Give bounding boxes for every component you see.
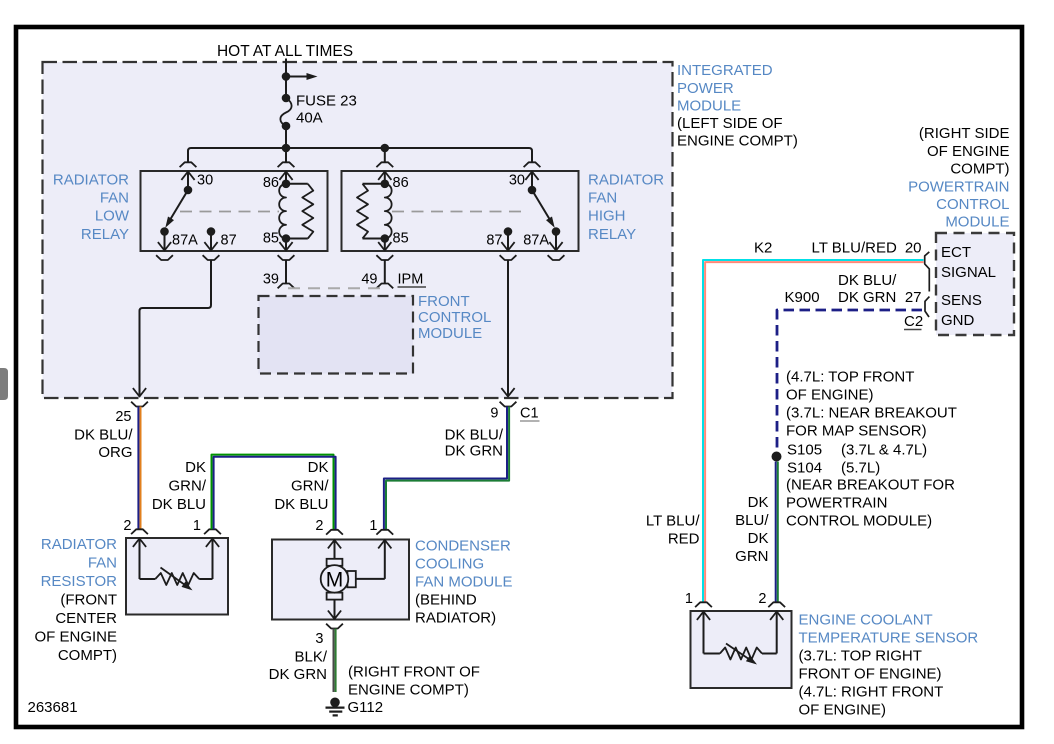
wire feed bus	[188, 148, 532, 162]
label ENGINE COOLANT TEMPERATURE SENSOR	[799, 612, 979, 647]
svg-text:27: 27	[905, 289, 922, 306]
svg-text:OF ENGINE: OF ENGINE	[927, 143, 1010, 160]
svg-text:GRN: GRN	[735, 548, 768, 565]
relay K2 pin85 lead	[378, 239, 391, 251]
connector tent sensor pin2	[768, 602, 785, 607]
svg-text:20: 20	[905, 240, 922, 257]
svg-text:87: 87	[221, 233, 237, 249]
svg-text:TEMPERATURE SENSOR: TEMPERATURE SENSOR	[799, 630, 979, 647]
svg-text:DK: DK	[748, 494, 769, 511]
svg-text:86: 86	[393, 175, 409, 191]
svg-text:DK: DK	[185, 459, 206, 476]
svg-text:FAN: FAN	[588, 190, 617, 207]
motor M1 top brush	[327, 559, 343, 566]
svg-text:BLK/: BLK/	[294, 649, 327, 666]
svg-text:GRN/: GRN/	[291, 478, 329, 495]
motor M1 ground lead	[328, 600, 341, 619]
wire DK BLU/DK GRN to sensor (blu strip)	[775, 462, 777, 603]
svg-text:(FRONT: (FRONT	[60, 592, 117, 609]
svg-text:CONTROL: CONTROL	[936, 196, 1009, 213]
relay K1 node 86	[282, 180, 291, 189]
svg-text:DK BLU: DK BLU	[274, 496, 328, 513]
motor M1 letter	[326, 569, 344, 592]
label pin 9	[490, 406, 498, 422]
motor M1 pin2 lead	[328, 540, 341, 559]
svg-text:(RIGHT SIDE: (RIGHT SIDE	[919, 125, 1010, 142]
svg-text:K2: K2	[754, 240, 772, 257]
svg-text:30: 30	[197, 173, 213, 189]
svg-text:CONDENSER: CONDENSER	[415, 538, 511, 555]
svg-text:S105: S105	[787, 442, 822, 459]
relay K1 pin87 label	[221, 233, 237, 249]
connector tent pin49	[376, 284, 393, 289]
wire tap arrow	[286, 73, 318, 80]
connector cup relay2 pin87	[500, 255, 517, 260]
connector cup condenser pin3	[326, 624, 343, 629]
connector cup relay2 pin85	[376, 255, 393, 260]
relay K2 pin86 label	[393, 175, 409, 191]
node fuse tap	[282, 72, 291, 81]
label IPM underlined	[398, 272, 427, 288]
label RADIATOR FAN RESISTOR (FRONT CENTER OF ENGINE COMPT)	[34, 536, 117, 664]
svg-text:FAN: FAN	[100, 190, 129, 207]
sensor thermistor variable arrow	[726, 644, 757, 665]
relay K2 switch arm	[532, 190, 555, 228]
label sensor pin 1	[685, 591, 693, 607]
svg-text:POWERTRAIN: POWERTRAIN	[786, 495, 887, 512]
svg-text:30: 30	[509, 173, 525, 189]
label 263681	[28, 699, 78, 716]
svg-text:1: 1	[369, 518, 377, 534]
svg-text:ENGINE COMPT): ENGINE COMPT)	[677, 133, 798, 150]
svg-text:87: 87	[486, 233, 502, 249]
label INTEGRATED POWER MODULE	[677, 62, 773, 115]
connector tent pin39	[278, 284, 295, 289]
svg-text:(RIGHT FRONT OF: (RIGHT FRONT OF	[348, 664, 480, 681]
wire DK GRN/DK BLU left (blu strip)	[214, 457, 336, 530]
radiator fan resistor box	[126, 538, 228, 615]
relay K1 node 85	[282, 234, 291, 243]
svg-text:DK: DK	[308, 459, 329, 476]
label (3.7L: TOP RIGHT FRONT OF ENGINE) (4.7L: RIGHT FRONT OF ENGINE)	[799, 648, 944, 719]
svg-text:CONTROL: CONTROL	[418, 309, 491, 326]
svg-text:(BEHIND: (BEHIND	[415, 592, 477, 609]
svg-text:(LEFT SIDE OF: (LEFT SIDE OF	[677, 115, 783, 132]
connector tent condenser pin2	[326, 530, 343, 535]
svg-text:ENGINE COOLANT: ENGINE COOLANT	[799, 612, 933, 629]
label RADIATOR FAN LOW RELAY	[53, 172, 130, 244]
label condenser pin 1	[369, 518, 377, 534]
label (4.7L: TOP FRONT OF ENGINE) (3.7L: NEAR BREAKOUT FOR MAP SENSOR)	[786, 369, 957, 440]
label K2 LT BLU/RED 20	[754, 240, 922, 257]
svg-text:86: 86	[263, 175, 279, 191]
wire bus drop left 86	[285, 148, 287, 162]
label resistor pin 1	[193, 518, 201, 534]
node bus-86L junction	[282, 144, 291, 153]
svg-text:LT BLU/: LT BLU/	[646, 513, 700, 530]
label pin 39	[263, 272, 279, 288]
stub relay2 85 to pin49	[384, 260, 386, 284]
svg-text:C1: C1	[520, 406, 539, 422]
label DK GRN/DK BLU (left)	[152, 459, 207, 513]
label POWERTRAIN CONTROL MODULE	[908, 179, 1009, 231]
label G112	[348, 699, 384, 716]
svg-text:RADIATOR: RADIATOR	[41, 536, 117, 553]
fuse F23 top node	[282, 94, 291, 103]
relay K1 node 87	[207, 227, 216, 236]
svg-text:(NEAR BREAKOUT FOR: (NEAR BREAKOUT FOR	[786, 477, 955, 494]
label pin 25	[115, 409, 131, 425]
svg-text:87A: 87A	[523, 233, 549, 249]
connector tent resistor pin2	[131, 529, 148, 534]
connector cup relay2 pin87A	[548, 255, 565, 260]
svg-text:IPM: IPM	[398, 272, 424, 288]
svg-text:DK GRN: DK GRN	[445, 443, 503, 460]
relay K2 pin86 arrow	[378, 172, 391, 184]
connector cup relay1 pin87	[203, 255, 220, 260]
svg-text:(4.7L: TOP FRONT: (4.7L: TOP FRONT	[786, 369, 914, 386]
svg-text:85: 85	[263, 231, 279, 247]
svg-text:DK GRN: DK GRN	[269, 666, 327, 683]
relay K1 pin30 label	[197, 173, 213, 189]
splice S105/S104	[772, 452, 782, 462]
relay K1 coil	[279, 184, 286, 239]
relay K2 node 87A	[552, 227, 561, 236]
svg-text:COMPT): COMPT)	[950, 161, 1009, 178]
svg-text:POWERTRAIN: POWERTRAIN	[908, 179, 1009, 196]
svg-text:CENTER: CENTER	[55, 610, 117, 627]
label DK BLU/ORG	[74, 427, 133, 462]
svg-text:FRONT OF ENGINE): FRONT OF ENGINE)	[799, 666, 942, 683]
svg-text:87A: 87A	[172, 233, 198, 249]
svg-text:ENGINE COMPT): ENGINE COMPT)	[348, 682, 469, 699]
svg-text:FAN MODULE: FAN MODULE	[415, 574, 513, 591]
motor M1 bottom brush	[327, 593, 343, 600]
relay K1 internal dashed link	[180, 211, 279, 213]
connector cup IPM exit 25	[131, 402, 148, 407]
svg-text:(4.7L: RIGHT FRONT: (4.7L: RIGHT FRONT	[799, 684, 944, 701]
connector tent relay1 pin86	[278, 162, 295, 167]
relay K1 node 87A	[160, 227, 169, 236]
relay K2 internal dashed link	[392, 211, 528, 213]
label K900 DK BLU/DK GRN 27	[785, 272, 922, 306]
label ECT SIGNAL	[941, 244, 996, 281]
label (RIGHT FRONT OF ENGINE COMPT)	[348, 664, 480, 699]
svg-text:263681: 263681	[28, 699, 78, 716]
svg-text:POWER: POWER	[677, 80, 734, 97]
svg-text:GND: GND	[941, 312, 975, 329]
wire DK BLU/DK GRN to sensor (grn strip)	[777, 462, 779, 603]
svg-text:GRN/: GRN/	[169, 478, 207, 495]
svg-text:1: 1	[193, 518, 201, 534]
relay K1 pin85 lead	[279, 239, 292, 251]
svg-text:2: 2	[758, 591, 766, 607]
svg-text:85: 85	[393, 231, 409, 247]
svg-text:DK BLU/: DK BLU/	[838, 272, 897, 289]
connector tent relay2 pin86	[376, 162, 393, 167]
svg-text:LT BLU/RED: LT BLU/RED	[812, 240, 897, 257]
label HOT AT ALL TIMES	[217, 43, 353, 60]
wire K900 dashed (to splice)	[777, 310, 922, 450]
sensor thermistor element	[704, 648, 777, 660]
svg-text:SIGNAL: SIGNAL	[941, 264, 996, 281]
svg-text:1: 1	[685, 591, 693, 607]
label condenser pin 2	[315, 518, 323, 534]
svg-text:RESISTOR: RESISTOR	[41, 573, 118, 590]
svg-text:39: 39	[263, 272, 279, 288]
connector cup IPM exit 9	[500, 402, 517, 407]
relay K1 node pin30	[184, 186, 193, 195]
wire DK GRN/DK BLU left (grn strip)	[212, 455, 334, 530]
svg-text:M: M	[326, 569, 344, 592]
relay K2 pin87 lead	[501, 232, 514, 251]
svg-text:INTEGRATED: INTEGRATED	[677, 62, 773, 79]
resistor R1 element	[140, 573, 213, 585]
label BLK/DK GRN	[269, 649, 328, 684]
svg-text:G112: G112	[348, 699, 384, 716]
relay K2 pin85 label	[393, 231, 409, 247]
wire hot feed vertical	[285, 59, 287, 100]
svg-text:DK BLU: DK BLU	[152, 496, 206, 513]
relay K1 pin86 arrow	[279, 172, 292, 184]
label DK BLU/DK GRN (C1 wire)	[445, 427, 504, 460]
wire gray dashed 39-49 link	[288, 287, 383, 289]
wire DK BLU/ORG (org strip)	[140, 407, 142, 530]
connector tent resistor pin1	[204, 529, 221, 534]
svg-text:HIGH: HIGH	[588, 208, 626, 225]
relay K1 pin85 label	[263, 231, 279, 247]
svg-text:(3.7L: TOP RIGHT: (3.7L: TOP RIGHT	[799, 648, 922, 665]
svg-text:MODULE: MODULE	[418, 325, 482, 342]
svg-text:2: 2	[315, 518, 323, 534]
svg-text:FAN: FAN	[88, 555, 117, 572]
relay K1 radiator fan low relay box	[141, 171, 328, 251]
svg-text:BLU/: BLU/	[735, 512, 769, 529]
fuse F23 element	[280, 98, 291, 126]
svg-text:RELAY: RELAY	[588, 226, 636, 243]
relay K2 node pin30	[528, 186, 537, 195]
label pin 49	[361, 272, 377, 288]
wire relay2 87 to IPM exit C1	[501, 260, 514, 397]
label LT BLU/RED (vertical run)	[646, 513, 700, 548]
label RADIATOR FAN HIGH RELAY	[588, 172, 664, 244]
connector tent relay2 pin30	[524, 162, 541, 167]
svg-text:K900: K900	[785, 289, 820, 306]
connector tent sensor pin1	[695, 602, 712, 607]
svg-text:OF ENGINE: OF ENGINE	[34, 629, 117, 646]
relay K1 pin30 arrow	[181, 172, 194, 191]
svg-text:40A: 40A	[296, 110, 323, 127]
label C1 underlined	[520, 406, 540, 422]
resistor R1 pin2 arrow	[133, 539, 146, 580]
resistor R1 variable arrow	[161, 568, 193, 591]
wire BLK/DK GRN (blk strip)	[333, 629, 335, 693]
svg-text:DK BLU/: DK BLU/	[445, 427, 504, 444]
relay K1 switch arm	[165, 190, 188, 228]
svg-text:COOLING: COOLING	[415, 556, 484, 573]
wire DK BLU/DK GRN from C1 (grn strip)	[386, 407, 509, 530]
relay K2 pin30 arrow	[525, 172, 538, 191]
svg-text:S104: S104	[787, 460, 822, 477]
svg-text:COMPT): COMPT)	[58, 647, 117, 664]
svg-text:(3.7L & 4.7L): (3.7L & 4.7L)	[841, 442, 927, 459]
label (RIGHT SIDE OF ENGINE COMPT)	[919, 125, 1010, 178]
integrated power module box (dashed)	[43, 62, 673, 398]
svg-text:RADIATOR): RADIATOR)	[415, 610, 496, 627]
relay K2 pin87A lead	[549, 232, 562, 251]
sensor thermistor pin2 arrow	[770, 612, 783, 654]
motor M1 body circle	[321, 565, 349, 593]
svg-text:DK: DK	[748, 530, 769, 547]
svg-text:49: 49	[361, 272, 377, 288]
svg-text:RELAY: RELAY	[81, 226, 129, 243]
left edge gray tab	[0, 368, 8, 400]
label (NEAR BREAKOUT FOR POWERTRAIN CONTROL MODULE)	[786, 477, 955, 530]
wire relay1 87 to IPM exit	[133, 260, 211, 397]
svg-text:DK GRN: DK GRN	[838, 289, 896, 306]
svg-text:DK BLU/: DK BLU/	[74, 427, 133, 444]
svg-text:OF ENGINE): OF ENGINE)	[786, 387, 874, 404]
label S105 (3.7L &amp; 4.7L) S104 (5.7L)	[787, 442, 927, 477]
stub relay1 85 to pin39	[285, 260, 287, 284]
svg-text:C2: C2	[904, 313, 923, 330]
relay K2 pin87 label	[486, 233, 502, 249]
connector bracket PCM pin27	[925, 297, 929, 317]
label resistor pin 2	[123, 518, 131, 534]
relay K2 coil resistor	[357, 184, 385, 239]
connector tent condenser pin1	[376, 530, 393, 535]
relay K1 coil resistor	[286, 184, 313, 239]
node bus-86R junction	[381, 144, 390, 153]
svg-text:MODULE: MODULE	[945, 214, 1009, 231]
label condenser pin 3	[315, 631, 323, 647]
svg-text:OF ENGINE): OF ENGINE)	[799, 702, 887, 719]
relay K2 pin30 label	[509, 173, 525, 189]
motor M1 right brush	[347, 571, 355, 587]
wire K2 LT BLU/RED (cyan strip)	[703, 260, 924, 602]
relay K2 pin87A label	[523, 233, 549, 249]
svg-text:HOT AT ALL TIMES: HOT AT ALL TIMES	[217, 43, 353, 60]
relay K1 pin86 label	[263, 175, 279, 191]
svg-text:FUSE 23: FUSE 23	[296, 93, 357, 110]
svg-text:MODULE: MODULE	[677, 98, 741, 115]
powertrain control module box (dashed)	[936, 233, 1014, 335]
relay K2 node 86	[381, 180, 390, 189]
connector tent relay1 pin30	[180, 162, 197, 167]
relay K1 pin87A label	[172, 233, 198, 249]
svg-text:3: 3	[315, 631, 323, 647]
wire DK BLU/ORG (dk blu strip)	[137, 407, 139, 530]
wire bus drop right 86	[384, 148, 386, 162]
svg-text:SENS: SENS	[941, 292, 982, 309]
resistor R1 pin1 arrow	[206, 539, 219, 580]
svg-text:ECT: ECT	[941, 244, 971, 261]
svg-text:FOR MAP SENSOR): FOR MAP SENSOR)	[786, 423, 927, 440]
connector bracket PCM pin20	[925, 252, 930, 292]
svg-text:2: 2	[123, 518, 131, 534]
label FRONT CONTROL MODULE	[418, 293, 491, 342]
label C2 underlined	[904, 313, 923, 330]
wire K2 LT BLU/RED (red strip)	[705, 262, 923, 602]
front control module box (dashed)	[259, 296, 414, 374]
wire BLK/DK GRN (grn strip)	[335, 629, 337, 693]
svg-text:25: 25	[115, 409, 131, 425]
sensor thermistor pin1 arrow	[697, 612, 710, 654]
label FUSE 23 40A	[296, 93, 357, 127]
relay K2 node 85	[381, 234, 390, 243]
relay K2 radiator fan high relay box	[342, 171, 579, 251]
label DK BLU/DK GRN (vertical run)	[735, 494, 769, 565]
svg-text:LOW: LOW	[95, 208, 130, 225]
label sensor pin 2	[758, 591, 766, 607]
svg-text:RED: RED	[668, 531, 700, 548]
connector cup relay1 pin87A	[156, 255, 173, 260]
relay K2 coil	[385, 184, 392, 239]
svg-text:9: 9	[490, 406, 498, 422]
svg-text:RADIATOR: RADIATOR	[588, 172, 664, 189]
relay K1 pin87 lead	[204, 232, 217, 251]
svg-text:FRONT: FRONT	[418, 293, 470, 310]
svg-text:(5.7L): (5.7L)	[841, 460, 880, 477]
label DK GRN/DK BLU (right)	[274, 459, 329, 513]
relay K1 pin87A lead	[158, 232, 171, 251]
label (LEFT SIDE OF ENGINE COMPT)	[677, 115, 798, 150]
label SENS GND	[941, 292, 982, 329]
engine coolant temperature sensor box	[691, 611, 792, 688]
condenser cooling fan module box	[272, 540, 409, 620]
svg-text:ORG: ORG	[98, 444, 132, 461]
relay K2 node 87	[504, 227, 513, 236]
motor M1 pin1 lead	[356, 540, 392, 579]
wire fuse to bus	[285, 126, 287, 150]
ground G112 symbol	[326, 698, 345, 716]
svg-text:(3.7L: NEAR BREAKOUT: (3.7L: NEAR BREAKOUT	[786, 405, 957, 422]
label CONDENSER COOLING FAN MODULE (BEHIND RADIATOR)	[415, 538, 513, 627]
connector cup relay1 pin85	[278, 255, 295, 260]
svg-text:CONTROL MODULE): CONTROL MODULE)	[786, 513, 932, 530]
svg-text:RADIATOR: RADIATOR	[53, 172, 129, 189]
fuse F23 bottom node	[282, 122, 291, 131]
wire DK BLU/DK GRN from C1 (blu strip)	[384, 407, 507, 530]
